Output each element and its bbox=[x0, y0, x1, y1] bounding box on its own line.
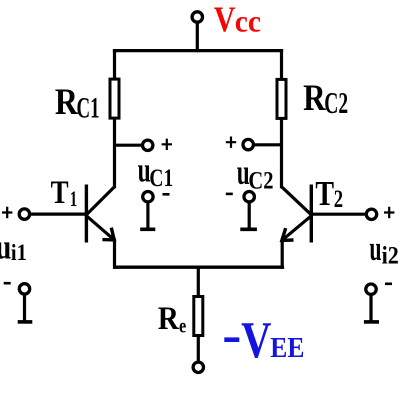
terminal uC1 - bbox=[143, 192, 153, 202]
power terminal Vcc bbox=[192, 12, 202, 22]
wire emitter T2 diagonal bbox=[282, 216, 311, 240]
label Re bbox=[158, 299, 187, 338]
wire collector T1 diagonal bbox=[86, 187, 114, 215]
minus sign ui2 bbox=[385, 282, 392, 285]
input terminal ui2 - bbox=[366, 284, 376, 294]
resistor RC2 bbox=[277, 79, 286, 118]
resistor RC1 bbox=[110, 79, 119, 118]
wire emitter T1 diagonal bbox=[86, 216, 114, 240]
wire output uC1 bbox=[113, 144, 142, 147]
wire top rail bbox=[113, 49, 283, 52]
svg-text:2: 2 bbox=[334, 185, 343, 213]
wire Re bottom stem bbox=[197, 336, 200, 363]
svg-text:1: 1 bbox=[70, 187, 77, 212]
wire base T2 bbox=[313, 213, 368, 216]
svg-text:i2: i2 bbox=[382, 242, 399, 270]
plus sign uC1 bbox=[162, 139, 172, 150]
label -VEE bbox=[224, 312, 304, 369]
svg-text:i1: i1 bbox=[11, 240, 27, 265]
plus sign ui2 bbox=[384, 207, 394, 218]
label RC2 bbox=[303, 78, 348, 120]
wire uC1 ground stem bbox=[146, 203, 149, 230]
svg-text:u: u bbox=[0, 227, 11, 266]
minus sign uC2 bbox=[226, 193, 233, 196]
svg-text:C2: C2 bbox=[248, 166, 273, 195]
svg-text:e: e bbox=[179, 314, 186, 338]
wire base T1 bbox=[28, 213, 85, 216]
wire ui1 ground stem bbox=[23, 295, 26, 321]
label T1 bbox=[51, 174, 78, 213]
terminal -VEE bbox=[193, 362, 203, 372]
svg-text:C1: C1 bbox=[77, 92, 100, 124]
wire left collector vertical bbox=[113, 118, 116, 188]
terminal uC2 - bbox=[244, 192, 254, 202]
wire Re top stem bbox=[197, 266, 200, 297]
svg-text:R: R bbox=[303, 78, 327, 119]
input terminal ui2 + bbox=[366, 209, 376, 219]
svg-text:EE: EE bbox=[270, 331, 304, 363]
label ui2 bbox=[369, 230, 398, 270]
wire uC2 ground stem bbox=[248, 203, 251, 230]
wire right collector vertical bbox=[280, 118, 283, 188]
plus sign uC2 bbox=[226, 137, 236, 148]
resistor Re bbox=[194, 297, 203, 336]
label RC1 bbox=[55, 80, 100, 124]
svg-text:cc: cc bbox=[235, 4, 261, 39]
svg-text:V: V bbox=[241, 312, 271, 369]
plus sign ui1 bbox=[2, 207, 12, 218]
svg-text:u: u bbox=[369, 230, 381, 269]
terminal uC2 + bbox=[243, 139, 253, 149]
wire ui2 ground stem bbox=[369, 296, 372, 321]
wire bottom rail bbox=[113, 266, 284, 269]
svg-text:V: V bbox=[214, 0, 235, 40]
svg-text:T: T bbox=[315, 174, 334, 213]
svg-text:R: R bbox=[55, 80, 79, 122]
transistor T1 base bar bbox=[85, 185, 88, 243]
terminal uC1 + bbox=[143, 140, 153, 150]
input terminal ui1 - bbox=[19, 284, 29, 294]
ground bar ui1 bbox=[18, 320, 33, 324]
label uC1 bbox=[138, 152, 174, 191]
transistor T2 emitter arrow bbox=[282, 228, 294, 240]
transistor T1 emitter arrow bbox=[102, 228, 114, 240]
input terminal ui1 + bbox=[19, 209, 29, 219]
svg-text:C1: C1 bbox=[149, 164, 173, 192]
wire emitter T2 vertical bbox=[281, 239, 284, 269]
minus sign uC1 bbox=[163, 193, 170, 196]
label T2 bbox=[315, 174, 343, 213]
ground bar ui2 bbox=[364, 320, 379, 324]
svg-text:C2: C2 bbox=[324, 87, 348, 120]
label uC2 bbox=[237, 152, 274, 196]
wire Vcc stem bbox=[196, 22, 199, 52]
label Vcc bbox=[214, 0, 261, 40]
svg-text:T: T bbox=[51, 174, 69, 211]
wire output uC2 bbox=[254, 143, 283, 146]
transistor T2 base bar bbox=[310, 185, 313, 243]
wire right collector drop bbox=[280, 49, 283, 80]
wire emitter T1 vertical bbox=[113, 239, 116, 269]
ground bar uC2 bbox=[240, 228, 257, 232]
svg-text:R: R bbox=[158, 299, 180, 336]
wire left collector drop bbox=[113, 49, 116, 80]
wire collector T2 diagonal bbox=[281, 187, 311, 215]
label ui1 bbox=[0, 227, 27, 266]
ground bar uC1 bbox=[140, 228, 155, 232]
minus sign ui1 bbox=[4, 282, 11, 285]
